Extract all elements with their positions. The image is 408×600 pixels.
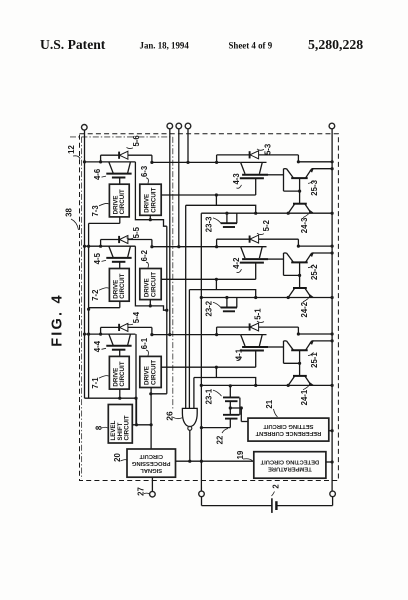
wire emitter 4-1 to mirror	[268, 346, 284, 348]
svg-text:5-6: 5-6	[132, 135, 141, 147]
svg-text:21: 21	[265, 399, 274, 408]
wire desat sense to gate 26 input	[189, 290, 257, 409]
wire 7-3 supply	[89, 217, 120, 224]
svg-text:DRIVECIRCUIT: DRIVECIRCUIT	[113, 189, 127, 214]
IGBT 4-4	[106, 334, 131, 356]
terminals U V W outputs	[167, 123, 173, 129]
sense transistor 23-1	[223, 384, 240, 401]
drive circuit box 7-3	[109, 184, 129, 217]
IGBT 4-6	[106, 162, 131, 184]
svg-text:22: 22	[215, 435, 224, 444]
svg-text:5-4: 5-4	[132, 311, 141, 323]
terminal (negative rail)	[329, 123, 335, 129]
svg-text:U.S. Patent: U.S. Patent	[40, 37, 106, 52]
wire 6-1 to signal processing	[150, 387, 152, 449]
wire 7-2 supply	[89, 301, 120, 308]
wire current sense bus	[200, 213, 203, 491]
wire rail to level shift	[85, 398, 137, 425]
svg-text:7-2: 7-2	[91, 289, 100, 301]
wire gate 26 output	[188, 430, 191, 462]
wire current sense rail 23-3	[201, 212, 333, 215]
drive circuit box 7-1	[109, 356, 129, 389]
svg-text:5-5: 5-5	[132, 226, 141, 238]
transistor 25-3	[284, 167, 334, 178]
svg-text:5-1: 5-1	[254, 308, 263, 320]
wire gate drive to 4-2	[161, 263, 256, 290]
IGBT 4-2	[240, 247, 268, 263]
svg-text:5-3: 5-3	[263, 143, 272, 155]
transistor 24-1	[287, 376, 313, 387]
svg-text:6-3: 6-3	[140, 165, 149, 177]
svg-text:TEMPERATUREDETECTING CIRCUIT: TEMPERATUREDETECTING CIRCUIT	[260, 459, 319, 472]
wire temperature circuit to rail	[326, 460, 334, 463]
terminal 27	[150, 477, 156, 497]
wire phase line 4-1	[152, 334, 241, 336]
svg-text:SIGNALPROCESSINGCIRCUIT: SIGNALPROCESSINGCIRCUIT	[131, 453, 170, 473]
IGBT 4-1	[240, 335, 268, 351]
wire collector line 4-6	[85, 161, 136, 163]
free-wheel diode 5-5	[99, 236, 152, 248]
svg-text:19: 19	[236, 450, 245, 459]
svg-text:4-3: 4-3	[232, 173, 241, 185]
drive circuit box 6-2	[140, 269, 161, 300]
sense transistor 23-2	[221, 296, 237, 311]
transistor 24-2	[287, 288, 313, 299]
svg-text:7-1: 7-1	[91, 377, 100, 389]
transistor 25-2	[284, 251, 334, 262]
wire mirror feedback 25-2/24-2	[284, 253, 302, 288]
svg-text:6-1: 6-1	[140, 337, 149, 349]
svg-text:REFERENCE CURRENTSETTING CIRCU: REFERENCE CURRENTSETTING CIRCUIT	[255, 423, 321, 436]
wire emitter 4-2 to mirror	[268, 258, 284, 260]
free-wheel diode 5-3	[215, 151, 334, 164]
wire current sense rail 23-1	[200, 384, 334, 387]
battery terminal right	[330, 491, 336, 497]
svg-text:2: 2	[272, 484, 281, 489]
wire gate drive to 4-3	[161, 179, 256, 206]
battery terminal left	[199, 491, 205, 497]
wire mirror feedback 25-3/24-3	[284, 169, 302, 204]
transistor 24-3	[287, 204, 313, 215]
svg-text:4-6: 4-6	[93, 168, 102, 180]
sense transistor 23-3	[221, 212, 237, 227]
svg-text:38: 38	[65, 208, 74, 217]
svg-text:4-5: 4-5	[93, 252, 102, 264]
phase lead V	[178, 129, 180, 247]
temperature detecting circuit box 19	[254, 452, 326, 479]
drive circuit box 6-1	[140, 356, 161, 387]
svg-text:24-1: 24-1	[300, 389, 309, 405]
wire reference circuit to rail	[329, 429, 334, 432]
svg-text:23-1: 23-1	[204, 388, 213, 404]
wire desat sense to gate 26 input	[186, 205, 258, 408]
wire phase line 4-2	[152, 246, 241, 248]
wire signal processing to temperature detector	[176, 460, 254, 463]
free-wheel diode 5-6	[99, 151, 152, 163]
drive circuit box 7-2	[109, 269, 129, 302]
svg-text:DRIVECIRCUIT: DRIVECIRCUIT	[144, 360, 158, 385]
svg-text:24-2: 24-2	[300, 301, 309, 317]
wire 7-x supply bus	[87, 223, 90, 398]
wire current sense rail 23-2	[200, 296, 334, 299]
phase lead W	[187, 129, 189, 163]
svg-text:12: 12	[67, 145, 76, 154]
wire emitter 4-3 to mirror	[268, 174, 284, 176]
svg-text:Jan. 18, 1994: Jan. 18, 1994	[140, 41, 190, 51]
wire sense to reference circuit	[230, 406, 248, 421]
svg-text:Sheet 4 of 9: Sheet 4 of 9	[229, 41, 273, 51]
transistor 25-1	[284, 339, 334, 350]
reference current setting circuit box 21	[248, 418, 329, 441]
phase lead U	[169, 129, 171, 335]
wire desat sense to gate 26 input	[194, 378, 257, 409]
drive circuit box 6-3	[140, 184, 161, 215]
svg-text:27: 27	[137, 487, 146, 496]
battery 2	[202, 497, 333, 513]
svg-text:4-1: 4-1	[235, 348, 244, 360]
svg-text:20: 20	[113, 453, 122, 462]
svg-text:4-2: 4-2	[232, 257, 241, 269]
svg-text:5,280,228: 5,280,228	[308, 37, 363, 52]
wire collector line 4-5	[85, 245, 136, 247]
wire collector line 4-4	[85, 333, 136, 335]
svg-text:7-3: 7-3	[91, 205, 100, 217]
positive rail wire	[84, 130, 86, 398]
terminal (positive rail)	[82, 125, 88, 131]
svg-text:DRIVECIRCUIT: DRIVECIRCUIT	[144, 187, 158, 212]
wire gate drive to 4-1	[161, 351, 256, 378]
signal processing circuit box 20	[127, 449, 176, 477]
wire phase line 4-3	[152, 161, 241, 163]
wire 7-1 supply	[118, 389, 121, 400]
negative rail wire	[331, 129, 333, 491]
svg-text:LEVELSHIFTCIRCUIT: LEVELSHIFTCIRCUIT	[110, 415, 130, 440]
level shift circuit box 8	[108, 405, 132, 444]
dashed boundary 38 (control circuit)	[80, 134, 339, 481]
sense element 22	[201, 398, 240, 428]
wire collector branch 4-6	[135, 162, 166, 226]
svg-text:23-2: 23-2	[204, 300, 213, 316]
free-wheel diode 5-2	[215, 235, 334, 248]
svg-text:24-3: 24-3	[300, 217, 309, 233]
svg-text:DRIVECIRCUIT: DRIVECIRCUIT	[144, 272, 158, 297]
svg-text:4-4: 4-4	[93, 340, 102, 352]
wire collector branch 4-5	[135, 246, 168, 312]
svg-text:6-2: 6-2	[140, 249, 149, 261]
wire mirror feedback 25-1/24-1	[284, 341, 302, 376]
svg-text:FIG. 4: FIG. 4	[50, 293, 66, 347]
svg-text:5-2: 5-2	[262, 219, 271, 231]
free-wheel diode 5-4	[99, 323, 152, 335]
wire collector branch 4-4	[134, 334, 166, 425]
dash-dot boundary 12 (semiconductor device)	[70, 136, 173, 138]
svg-text:26: 26	[164, 411, 174, 421]
NAND gate 26	[182, 408, 197, 430]
IGBT 4-3	[240, 162, 268, 178]
svg-text:23-3: 23-3	[204, 216, 213, 232]
wire drive supply bus	[166, 226, 168, 394]
svg-text:DRIVECIRCUIT: DRIVECIRCUIT	[113, 361, 127, 386]
free-wheel diode 5-1	[215, 323, 334, 336]
IGBT 4-5	[106, 246, 131, 268]
svg-text:DRIVECIRCUIT: DRIVECIRCUIT	[113, 273, 127, 298]
wire level shift output	[132, 423, 152, 426]
